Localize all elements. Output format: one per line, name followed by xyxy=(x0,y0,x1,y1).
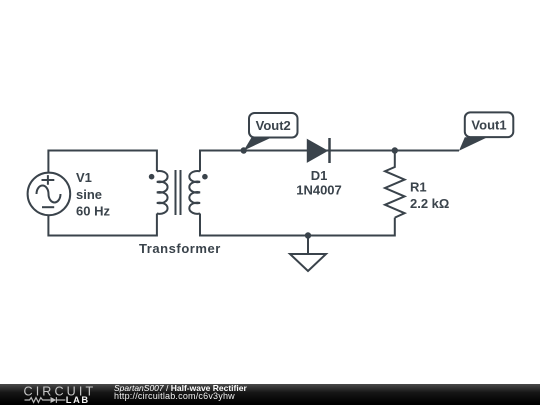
svg-text:sine: sine xyxy=(76,187,102,202)
svg-text:Vout2: Vout2 xyxy=(256,118,291,133)
svg-text:V1: V1 xyxy=(76,170,92,185)
svg-text:1N4007: 1N4007 xyxy=(296,183,342,198)
svg-text:D1: D1 xyxy=(311,168,328,183)
svg-text:Transformer: Transformer xyxy=(139,241,221,256)
svg-text:LAB: LAB xyxy=(66,395,90,405)
svg-text:Vout1: Vout1 xyxy=(471,117,506,132)
svg-text:2.2 kΩ: 2.2 kΩ xyxy=(410,196,449,211)
svg-text:R1: R1 xyxy=(410,179,427,194)
svg-text:60 Hz: 60 Hz xyxy=(76,203,110,218)
